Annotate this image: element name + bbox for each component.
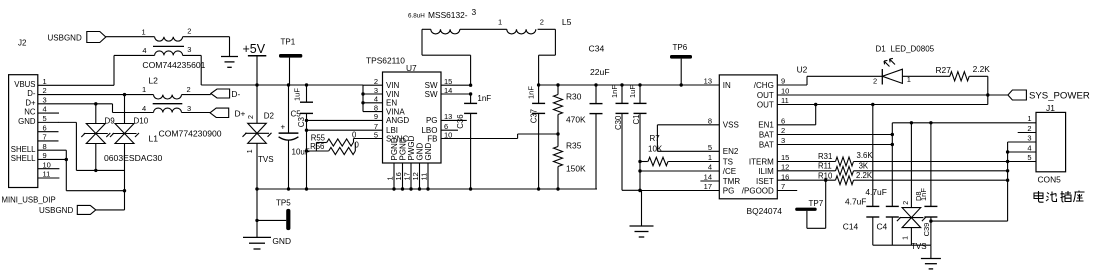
svg-text:D+: D+	[235, 108, 246, 118]
wire /PGOOD stub	[777, 190, 797, 192]
wire battery gnd rail	[873, 244, 931, 246]
test point TP5	[257, 199, 291, 231]
wire VBUS J2.1 to choke pin4	[56, 55, 155, 85]
USBGND power tag top	[48, 32, 106, 43]
svg-text:1: 1	[43, 77, 47, 86]
svg-text:1: 1	[903, 236, 910, 240]
svg-text:1nF: 1nF	[919, 188, 928, 201]
label 0603ESDAC30	[104, 153, 163, 163]
connector J2 MINI_USB_DIP	[2, 39, 56, 205]
svg-text:1uF: 1uF	[293, 88, 302, 101]
choke core bar	[153, 45, 184, 47]
svg-text:TPS62110: TPS62110	[366, 56, 405, 66]
svg-text:2: 2	[903, 201, 910, 205]
J1 pin wires and numbers	[1008, 114, 1036, 162]
J2 pin stubs and numbers	[38, 77, 67, 179]
U7 title TPS62110	[366, 56, 417, 74]
svg-text:7: 7	[781, 182, 785, 191]
node LBI to ground column	[305, 129, 308, 132]
capacitor C30 1nF	[610, 85, 629, 191]
svg-text:C36: C36	[456, 114, 465, 128]
svg-text:10: 10	[444, 130, 452, 139]
svg-text:1: 1	[247, 149, 254, 153]
svg-text:10: 10	[43, 160, 51, 169]
svg-text:6: 6	[781, 116, 785, 125]
resistor R30 470K	[554, 85, 586, 134]
U7 right pin stubs	[441, 77, 518, 139]
svg-text:2.2K: 2.2K	[973, 64, 991, 74]
svg-text:6: 6	[43, 123, 47, 132]
wire OUT pin10 to SYS_POWER	[777, 94, 1008, 96]
svg-text:/PGOOD: /PGOOD	[742, 186, 774, 195]
wire ground rail	[255, 187, 597, 190]
wire PG to gnd column	[638, 189, 719, 192]
svg-text:13: 13	[444, 112, 452, 121]
svg-text:3.6K: 3.6K	[857, 151, 874, 160]
U7 bottom pin stubs	[386, 163, 430, 191]
svg-text:D-: D-	[27, 89, 36, 98]
svg-text:13: 13	[704, 77, 712, 86]
wire GND J2.5 down to ESD rail	[59, 122, 77, 170]
svg-text:C37: C37	[530, 109, 539, 123]
svg-text:C30: C30	[614, 115, 623, 130]
svg-text:2: 2	[540, 17, 544, 26]
svg-text:TMR: TMR	[723, 177, 741, 186]
capacitor C39 1nF	[919, 123, 937, 245]
wire D+ J2.3 jog to L2 pin4	[56, 104, 154, 113]
svg-text:2: 2	[187, 27, 191, 36]
svg-text:C5: C5	[291, 109, 302, 118]
svg-text:SW: SW	[425, 90, 438, 99]
wire choke pin2 to ground	[183, 37, 230, 57]
svg-text:ISET: ISET	[756, 177, 774, 186]
wire USBGND to choke pin1	[106, 36, 155, 38]
svg-text:OUT: OUT	[757, 91, 774, 100]
svg-text:TVS: TVS	[911, 242, 927, 251]
svg-text:C4: C4	[877, 222, 888, 232]
svg-text:VBUS: VBUS	[14, 80, 35, 89]
wire L5 pin2 to output rail	[538, 29, 556, 85]
svg-text:2.2K: 2.2K	[856, 171, 873, 180]
resistor R56 0	[305, 141, 360, 155]
svg-text:11: 11	[781, 96, 789, 105]
resistor R10 2.2K	[777, 171, 1007, 185]
U2 left pin stubs numbers	[700, 77, 719, 192]
choke COM744235601 bottom winding pins 4-3	[142, 45, 205, 70]
op IC U7 TPS62110 body	[383, 72, 442, 163]
svg-text:C14: C14	[843, 222, 859, 232]
ground symbol under C1	[630, 226, 654, 237]
TVS diode D2	[243, 85, 275, 189]
svg-text:J2: J2	[18, 39, 27, 48]
svg-text:LED_D0805: LED_D0805	[891, 45, 935, 54]
ESD array common rail	[76, 169, 124, 172]
svg-text:5: 5	[43, 114, 47, 123]
svg-text:11: 11	[43, 170, 51, 179]
svg-text:8: 8	[374, 103, 378, 112]
svg-text:COM744235601: COM744235601	[142, 60, 205, 70]
svg-text:1nF: 1nF	[610, 85, 619, 98]
svg-text:4: 4	[374, 95, 378, 104]
svg-text:3: 3	[781, 136, 785, 145]
svg-text:FB: FB	[427, 134, 437, 143]
svg-text:3: 3	[187, 104, 191, 113]
charger IC U2 BQ24074 body	[719, 75, 777, 199]
svg-text:L2: L2	[148, 76, 158, 86]
wire L5 left lead to SW node	[422, 29, 471, 85]
svg-text:5: 5	[374, 130, 378, 139]
svg-text:COM774230900: COM774230900	[159, 129, 222, 139]
svg-text:ITERM: ITERM	[749, 157, 774, 166]
node ANGD to ground column	[305, 119, 308, 122]
svg-text:IN: IN	[723, 81, 731, 90]
L5 middle link and label 1	[460, 17, 507, 29]
svg-text:SYS_POWER: SYS_POWER	[1029, 91, 1090, 102]
svg-text:/CE: /CE	[723, 167, 736, 176]
wire choke pin3 to +5V rail	[183, 55, 202, 85]
svg-text:EN1: EN1	[758, 121, 774, 130]
capacitor C1 1uF	[628, 85, 647, 226]
svg-text:2: 2	[1027, 124, 1031, 133]
svg-text:1: 1	[498, 17, 502, 26]
svg-text:3: 3	[472, 7, 477, 17]
wire VSS to EN2 tie	[657, 125, 719, 152]
resistor R55 0	[311, 130, 357, 146]
svg-text:2: 2	[43, 86, 47, 95]
svg-text:CON5: CON5	[1038, 175, 1062, 185]
svg-text:0: 0	[355, 141, 360, 150]
svg-text:10K: 10K	[648, 145, 663, 154]
svg-text:3K: 3K	[859, 162, 869, 171]
node SW junctions	[469, 84, 472, 104]
svg-text:4: 4	[142, 46, 146, 55]
svg-text:+: +	[281, 123, 286, 132]
svg-text:11: 11	[420, 173, 429, 181]
wire SHELL J2.8 J2.9 to USBGND net	[65, 150, 127, 192]
svg-text:1nF: 1nF	[477, 94, 491, 103]
svg-text:J1: J1	[1046, 103, 1055, 113]
svg-text:10: 10	[781, 87, 789, 96]
svg-text:5: 5	[708, 143, 712, 152]
ESD diode D10	[110, 93, 149, 191]
svg-text:3: 3	[374, 86, 378, 95]
power port +5V	[243, 42, 267, 85]
svg-text:U7: U7	[406, 63, 417, 73]
test point TP7	[795, 179, 827, 229]
wire /CHG to LED	[777, 76, 882, 85]
svg-text:SW: SW	[425, 81, 438, 90]
wire FB node	[518, 132, 560, 138]
wire C30 to C1 gnd link	[622, 189, 642, 192]
common-mode choke COM744235601 top winding pins 1-2	[142, 27, 192, 42]
svg-text:/CHG: /CHG	[754, 81, 774, 90]
capacitor C34 22uF	[589, 44, 610, 190]
svg-text:1: 1	[708, 153, 712, 162]
label battery socket chinese	[1034, 191, 1085, 203]
wire BAT pin3	[777, 143, 894, 146]
svg-text:470K: 470K	[566, 115, 586, 125]
ground symbol battery	[921, 245, 941, 269]
svg-text:D1: D1	[876, 45, 887, 54]
wire L2 pin2 to D- tag	[182, 94, 211, 96]
svg-text:L5: L5	[562, 17, 572, 27]
svg-text:TP7: TP7	[809, 199, 824, 208]
svg-text:EN: EN	[386, 99, 397, 108]
test point TP6	[670, 43, 692, 85]
capacitor C4 4.7uF	[865, 123, 898, 245]
svg-text:VIN: VIN	[386, 81, 400, 90]
svg-text:1: 1	[142, 85, 146, 94]
svg-text:MSS6132-: MSS6132-	[428, 10, 468, 20]
wire D2 to GND	[255, 187, 258, 237]
svg-text:D+: D+	[25, 98, 36, 107]
wire output rail VOUT	[537, 83, 719, 86]
wire R27 down to OUT net	[986, 76, 989, 104]
svg-text:VSS: VSS	[723, 121, 739, 130]
svg-text:5: 5	[1027, 153, 1031, 162]
wire L2 pin3 to D+ tag	[182, 112, 211, 114]
svg-text:D-: D-	[231, 89, 240, 99]
svg-text:ANGD: ANGD	[386, 116, 409, 125]
L5 right winding pin 2	[507, 17, 572, 34]
L2 bottom winding pins 4-3	[142, 104, 191, 113]
svg-text:14: 14	[704, 173, 712, 182]
capacitor C14 4.7uF	[843, 105, 880, 246]
svg-text:2: 2	[248, 115, 255, 119]
wire /CE to gnd column	[638, 169, 719, 172]
svg-text:GND: GND	[424, 143, 433, 161]
svg-text:USBGND: USBGND	[48, 33, 82, 42]
capacitor C37 1nF	[527, 85, 546, 191]
svg-text:6.8uH: 6.8uH	[408, 13, 425, 20]
svg-text:R11: R11	[818, 162, 832, 171]
svg-text:1uF: 1uF	[628, 85, 637, 98]
resistor R31 3.6K	[777, 151, 1036, 166]
svg-text:4.7uF: 4.7uF	[845, 197, 866, 207]
svg-text:C39: C39	[922, 223, 931, 237]
resistor R7 10K	[638, 134, 719, 166]
U2 right pin numbers	[781, 77, 789, 192]
svg-text:TS: TS	[723, 157, 733, 166]
svg-text:OUT: OUT	[757, 100, 774, 109]
electrolytic capacitor C3 10uF	[279, 85, 310, 189]
svg-text:R7: R7	[650, 134, 661, 143]
svg-text:4: 4	[142, 104, 146, 113]
wire EN1 to OUT	[777, 105, 815, 125]
svg-text:TP1: TP1	[281, 38, 296, 47]
capacitor C5 1uF	[291, 85, 314, 189]
svg-text:GND: GND	[18, 117, 36, 126]
svg-text:3: 3	[43, 95, 47, 104]
svg-text:15: 15	[444, 77, 452, 86]
net label tag D+	[210, 108, 246, 118]
LED D1 LED_D0805	[873, 45, 935, 86]
svg-text:EN2: EN2	[723, 147, 739, 156]
U7 VIN bracket	[361, 85, 364, 111]
svg-text:R30: R30	[566, 92, 582, 102]
wire J1 gnd bracket	[931, 142, 1009, 221]
svg-text:C1: C1	[632, 115, 641, 125]
wire BAT pin2	[777, 133, 894, 136]
svg-text:TP6: TP6	[673, 43, 688, 52]
svg-text:BAT: BAT	[759, 140, 774, 149]
svg-text:L1: L1	[149, 134, 159, 144]
net label tag SYS_POWER	[1008, 90, 1090, 102]
svg-text:BQ24074: BQ24074	[747, 206, 783, 216]
svg-text:8: 8	[708, 116, 712, 125]
svg-text:R27: R27	[936, 65, 952, 75]
svg-text:U2: U2	[797, 65, 808, 75]
svg-text:PG: PG	[426, 116, 438, 125]
inductor L5 MSS6132 left winding	[408, 7, 477, 34]
net label tag D-	[211, 89, 241, 99]
svg-text:ILIM: ILIM	[758, 167, 774, 176]
svg-text:+5V: +5V	[243, 42, 266, 56]
svg-text:3: 3	[1027, 133, 1031, 142]
inductor L2 top winding pins 1-2	[142, 76, 191, 100]
svg-text:VIN: VIN	[386, 90, 400, 99]
svg-text:4: 4	[43, 105, 47, 114]
svg-text:R35: R35	[566, 141, 582, 151]
U7 left pin stubs	[307, 77, 383, 139]
svg-text:2: 2	[374, 77, 378, 86]
svg-text:2: 2	[187, 85, 191, 94]
svg-text:1: 1	[142, 27, 146, 36]
svg-text:9: 9	[43, 151, 47, 160]
svg-text:R56: R56	[310, 142, 324, 151]
svg-text:9: 9	[374, 112, 378, 121]
svg-text:R31: R31	[818, 152, 832, 161]
svg-text:TP5: TP5	[276, 199, 291, 208]
svg-text:VINA: VINA	[386, 107, 405, 116]
svg-text:4.7uF: 4.7uF	[865, 187, 886, 197]
resistor R27 2.2K	[902, 64, 990, 81]
wire BAT net J1 pin1	[892, 121, 1036, 124]
L2 core bar	[153, 103, 183, 105]
svg-text:NC: NC	[24, 108, 36, 117]
svg-text:USBGND: USBGND	[39, 206, 73, 215]
svg-text:3: 3	[187, 45, 191, 54]
test point TP1	[279, 38, 302, 86]
svg-text:PG: PG	[723, 186, 735, 195]
svg-text:SHELL: SHELL	[11, 145, 36, 154]
svg-text:C34: C34	[589, 44, 605, 54]
ESD diode D9 0603ESDAC30	[81, 102, 115, 170]
svg-text:17: 17	[704, 182, 712, 191]
TVS diode D8	[897, 123, 927, 251]
svg-text:15: 15	[781, 153, 789, 162]
ground symbol GND main	[243, 236, 291, 249]
wire OUT pin11	[777, 103, 988, 106]
svg-text:14: 14	[444, 86, 452, 95]
svg-text:2: 2	[781, 126, 785, 135]
svg-text:TVS: TVS	[258, 155, 274, 164]
ground symbol top	[221, 57, 238, 68]
svg-text:4: 4	[708, 163, 712, 172]
svg-text:22uF: 22uF	[590, 67, 610, 77]
svg-text:1nF: 1nF	[527, 86, 536, 99]
svg-text:7: 7	[43, 133, 47, 142]
U2 labels	[747, 65, 808, 217]
svg-text:0: 0	[352, 130, 357, 139]
svg-text:GND: GND	[272, 236, 291, 246]
svg-text:D2: D2	[264, 112, 275, 121]
capacitor C36 1nF	[456, 94, 491, 191]
svg-text:9: 9	[781, 77, 785, 86]
svg-text:D9: D9	[105, 117, 116, 126]
resistor R11 3K	[777, 162, 1007, 176]
svg-text:BAT: BAT	[759, 130, 774, 139]
label L1 COM774230900	[149, 129, 222, 144]
svg-text:SHELL: SHELL	[11, 154, 36, 163]
svg-text:4: 4	[1027, 143, 1031, 152]
svg-text:1: 1	[1027, 114, 1031, 123]
svg-text:150K: 150K	[566, 164, 586, 174]
USBGND power tag bottom	[39, 191, 125, 216]
svg-text:8: 8	[43, 142, 47, 151]
svg-text:D10: D10	[134, 117, 149, 126]
svg-text:MINI_USB_DIP: MINI_USB_DIP	[2, 196, 56, 205]
resistor R35 150K	[554, 134, 586, 189]
wire +5V rail	[201, 83, 363, 86]
wire D- J2.2 to L2 pin1	[56, 94, 154, 96]
connector J1 CON5 body	[1036, 103, 1066, 185]
svg-text:2: 2	[873, 76, 877, 85]
svg-text:0603ESDAC30: 0603ESDAC30	[104, 153, 163, 163]
